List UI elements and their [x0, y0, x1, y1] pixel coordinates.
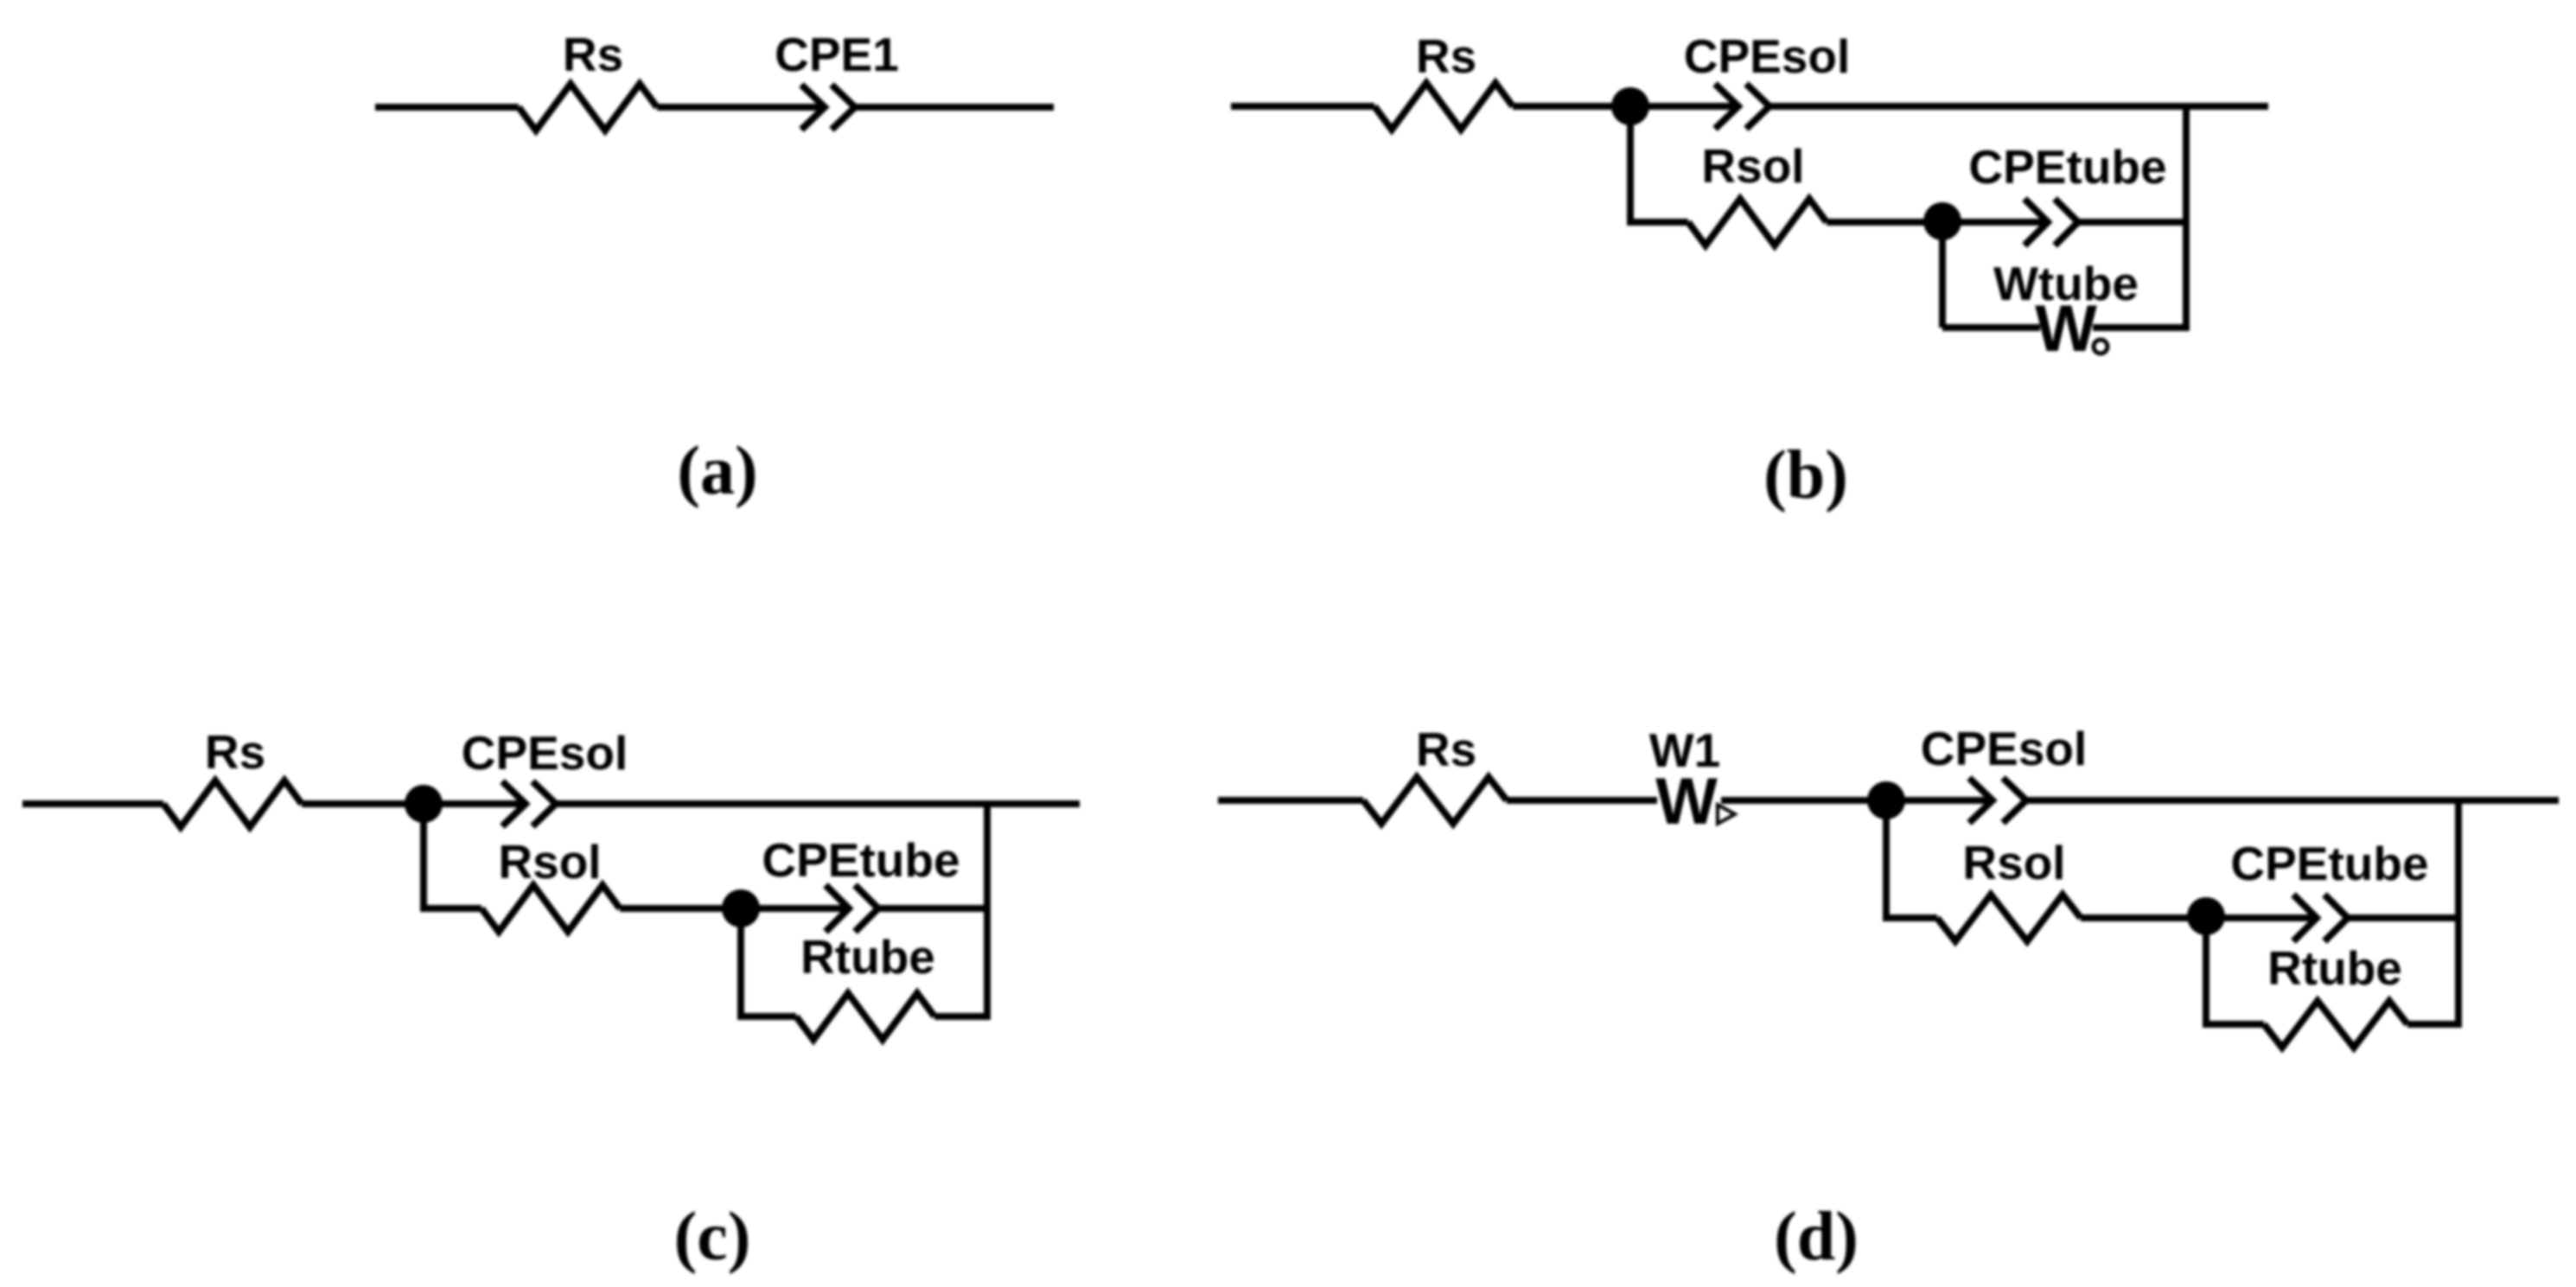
svg-text:CPEtube: CPEtube: [1968, 140, 2166, 194]
wire node2 stem (b): [1939, 221, 1946, 328]
CPE CPEtube (d): [2293, 895, 2348, 941]
resistor Rsol (d): [1937, 895, 2081, 941]
wire left (c): [22, 800, 163, 807]
wire node1 to CPEsol (d): [1886, 797, 1993, 804]
svg-text:Rtube: Rtube: [800, 930, 935, 984]
CPE C1 (a): [801, 85, 855, 130]
svg-text:Rsol: Rsol: [1962, 836, 2065, 889]
CPE CPEtube (c): [826, 885, 878, 932]
wire right vertical (d): [2455, 797, 2462, 1028]
wire mid right (b): [2078, 219, 2186, 226]
wire bottom right (b): [2093, 324, 2186, 331]
svg-text:CPEsol: CPEsol: [1684, 29, 1851, 83]
wire mid left (b): [1627, 219, 1688, 226]
node 1 (d): [1867, 781, 1905, 819]
svg-text:(c): (c): [674, 1199, 751, 1275]
wire node1 stem (c): [420, 804, 427, 908]
resistor Rsol (c): [481, 885, 620, 932]
wire node to CPEsol (c): [424, 800, 526, 807]
svg-text:Rs: Rs: [563, 28, 623, 81]
wire left (b): [1231, 103, 1374, 110]
wire top right (c): [556, 800, 1080, 807]
wire node2 to CPEtube (d): [2206, 914, 2317, 921]
svg-text:Rsol: Rsol: [498, 835, 601, 889]
wire mid (a): [657, 104, 825, 111]
wire node2 to CPEtube (c): [741, 905, 849, 912]
wire mid to node2 (b): [1827, 219, 1942, 226]
wire mid right (d): [2348, 914, 2458, 921]
wire Rs to W1 (d): [1507, 797, 1657, 804]
resistor Rs (a): [519, 84, 657, 131]
wire right (a): [855, 104, 1054, 111]
svg-text:Wtube: Wtube: [1993, 257, 2139, 310]
wire right vertical (b): [2183, 103, 2190, 331]
svg-text:Rs: Rs: [1416, 723, 1476, 776]
wire bottom right (c): [934, 1013, 987, 1020]
node 2 (c): [722, 889, 760, 927]
wire node2 stem (c): [737, 908, 744, 1016]
svg-text:Rtube: Rtube: [2267, 941, 2402, 995]
resistor Rs (c): [163, 780, 302, 827]
svg-text:CPEsol: CPEsol: [1921, 722, 2088, 775]
wire W1 to node1 (d): [1721, 797, 1886, 804]
wire left (a): [375, 104, 519, 111]
CPE CPEsol (c): [502, 781, 556, 826]
svg-text:(b): (b): [1763, 437, 1848, 513]
CPE CPEsol (d): [1969, 778, 2026, 823]
wire node1 stem (d): [1883, 800, 1890, 918]
warburg Wtube subscript o (b): [2094, 340, 2107, 354]
resistor Rs (d): [1363, 777, 1507, 824]
wire node2 stem (d): [2203, 916, 2209, 1024]
wire right vertical (c): [984, 800, 991, 1020]
wire top right (b): [1769, 103, 2268, 110]
svg-text:CPEsol: CPEsol: [462, 726, 628, 780]
svg-text:CPEtube: CPEtube: [762, 833, 960, 887]
wire top right (d): [2026, 797, 2559, 804]
resistor Rs (b): [1374, 83, 1513, 130]
wire left (d): [1218, 797, 1363, 804]
node 1 (b): [1611, 87, 1649, 125]
svg-text:CPE1: CPE1: [775, 28, 899, 81]
CPE CPEtube (b): [2024, 199, 2078, 245]
wire mid to node2 (d): [2081, 914, 2206, 921]
warburg W1 subscript triangle (d): [1718, 805, 1735, 824]
wire bottom left (d): [2203, 1021, 2264, 1028]
wire mid to node2 (c): [620, 905, 741, 912]
node 2 (d): [2187, 897, 2225, 935]
svg-text:Rs: Rs: [1416, 29, 1476, 83]
node 1 (c): [405, 785, 443, 823]
wire node2 to CPEtube (b): [1942, 219, 2048, 226]
svg-text:Rsol: Rsol: [1701, 139, 1804, 193]
resistor Rtube (d): [2264, 1001, 2407, 1048]
wire bottom left (b): [1942, 324, 2040, 331]
CPE CPEsol (b): [1715, 84, 1769, 129]
resistor Rsol (b): [1688, 199, 1827, 245]
wire to node (b): [1513, 103, 1630, 110]
svg-text:W1: W1: [1649, 723, 1721, 777]
wire bottom left (c): [737, 1013, 796, 1020]
resistor Rtube (c): [796, 993, 934, 1040]
svg-text:(d): (d): [1774, 1199, 1859, 1275]
svg-text:Rs: Rs: [205, 725, 265, 779]
wire mid left (c): [420, 905, 481, 912]
wire node1 stem (b): [1627, 106, 1634, 222]
wire bottom right (d): [2407, 1021, 2458, 1028]
svg-text:(a): (a): [677, 433, 757, 509]
svg-text:CPEtube: CPEtube: [2230, 837, 2428, 890]
node 2 (b): [1923, 202, 1961, 240]
wire to node (c): [302, 800, 424, 807]
wire mid left (d): [1883, 914, 1937, 921]
wire mid right (c): [878, 905, 987, 912]
wire node to CPEsol (b): [1630, 103, 1738, 110]
